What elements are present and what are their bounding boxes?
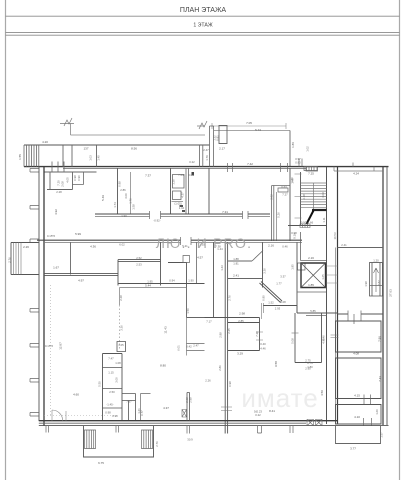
band vertical x72 (71, 145, 73, 167)
svg-text:7.27: 7.27 (282, 193, 288, 197)
svg-text:7.30: 7.30 (255, 331, 259, 337)
svg-text:5.44: 5.44 (145, 284, 151, 288)
window box top right wing (306, 167, 318, 171)
svg-text:1.88: 1.88 (233, 257, 239, 261)
door ticks corridor bottom (181, 237, 192, 245)
dark mark top shaft (192, 172, 195, 176)
svg-text:137: 137 (83, 147, 88, 151)
svg-text:1.86: 1.86 (291, 142, 295, 148)
svg-text:3.36: 3.36 (120, 325, 124, 331)
title rule 2 (6, 32, 400, 34)
svg-text:4.24: 4.24 (353, 172, 359, 176)
svg-text:0.80: 0.80 (295, 161, 301, 165)
svg-text:7.05: 7.05 (246, 121, 252, 125)
svg-text:2.98: 2.98 (189, 397, 193, 403)
right wing top room inner line (334, 167, 383, 171)
bottom wall line2 (39, 422, 306, 424)
wall x186 lower (186, 263, 188, 318)
right wing inner corridor wall thin (335, 248, 337, 425)
corridor cross ticks right (327, 266, 338, 283)
svg-text:7.37: 7.37 (145, 174, 151, 178)
svg-text:1.67: 1.67 (53, 266, 59, 270)
canopy line left (71, 134, 206, 136)
toilet cluster outer walls (103, 354, 123, 421)
heater shaft box right (370, 263, 383, 297)
left wall bottom stub (46, 426, 49, 433)
wall x70 room 1.67 (70, 242, 72, 274)
svg-text:2.16: 2.16 (268, 244, 274, 248)
svg-text:2.86: 2.86 (218, 365, 222, 371)
small box 278-288 (278, 188, 288, 192)
svg-text:7.04: 7.04 (178, 173, 184, 177)
tick x226 (221, 407, 232, 411)
svg-text:6.75: 6.75 (98, 461, 104, 465)
canopy line right (214, 130, 290, 132)
bay window hatch (14, 243, 22, 275)
corridor top wall (95, 213, 270, 215)
door ticks top wall x280-288 (281, 163, 288, 172)
stair arrow (307, 211, 314, 225)
svg-text:2.26: 2.26 (205, 379, 211, 383)
svg-text:1.81: 1.81 (233, 262, 239, 266)
svg-text:2.28: 2.28 (119, 295, 123, 301)
hatched boxes bottom right wall (307, 420, 314, 426)
dark mark low (182, 210, 185, 212)
svg-text:5.50: 5.50 (98, 381, 102, 387)
hatched box 2 (316, 420, 323, 426)
wall x188 lower double (187, 393, 190, 421)
svg-text:0.98: 0.98 (118, 181, 122, 187)
column stub x224 (225, 426, 227, 434)
svg-text:3.03: 3.03 (321, 192, 325, 198)
svg-text:9.58: 9.58 (274, 361, 278, 367)
wall y317 (187, 317, 260, 319)
wall x262 wc (262, 242, 264, 287)
porch steps box 1 (85, 430, 96, 449)
stair landing dark (312, 209, 327, 211)
elevator lobby bottom (297, 291, 327, 293)
svg-text:1.90: 1.90 (121, 214, 127, 218)
svg-text:1.02: 1.02 (306, 146, 310, 152)
wall main top second line (63, 167, 306, 169)
svg-text:1.57: 1.57 (380, 432, 384, 438)
svg-text:2.76: 2.76 (228, 295, 232, 301)
svg-text:4.50: 4.50 (320, 390, 324, 396)
svg-text:0.90: 0.90 (77, 175, 81, 181)
svg-text:3.37: 3.37 (280, 275, 286, 279)
bay window left (11, 243, 39, 275)
right wing inner wall (337, 167, 339, 424)
svg-text:ЛЮ.. И PRO.: ЛЮ.. И PRO. (156, 235, 252, 251)
wall x130 thin (130, 172, 132, 214)
wall main top (24, 166, 389, 168)
wall y260 double (118, 260, 161, 262)
svg-text:1.79: 1.79 (205, 155, 209, 161)
svg-text:0.94: 0.94 (169, 279, 175, 283)
svg-text:7.17: 7.17 (206, 320, 212, 324)
closet box C (173, 175, 185, 189)
wall x118 (117, 260, 119, 286)
svg-text:6.01: 6.01 (177, 345, 181, 351)
svg-text:8.56: 8.56 (131, 147, 137, 151)
room box x226-259 (228, 318, 260, 351)
column stub x117 (116, 426, 119, 433)
svg-text:0.98: 0.98 (228, 381, 232, 387)
diagonal wall middle (260, 282, 283, 303)
office bottom y362 (295, 362, 322, 364)
svg-text:2.52: 2.52 (136, 256, 142, 260)
column stub x259 (258, 426, 262, 433)
svg-text:2.86: 2.86 (120, 188, 126, 192)
svg-text:4.37: 4.37 (163, 406, 169, 410)
hall north wall (118, 283, 205, 285)
door ticks top wall x227-232 (228, 163, 233, 172)
svg-text:1.70: 1.70 (129, 198, 133, 204)
svg-text:2.76: 2.76 (8, 257, 12, 263)
svg-text:1.85: 1.85 (308, 283, 314, 287)
svg-text:3.77: 3.77 (350, 447, 356, 451)
svg-text:7.86: 7.86 (378, 336, 382, 342)
cell 140-150 (141, 394, 151, 421)
svg-text:ПЛАН ЭТАЖА: ПЛАН ЭТАЖА (180, 7, 227, 14)
svg-text:0.90x1.66: 0.90x1.66 (301, 221, 314, 225)
wall top band upper (24, 144, 210, 146)
ticks wall x337 (331, 335, 339, 338)
svg-text:5.99: 5.99 (75, 232, 81, 236)
svg-text:12.87: 12.87 (59, 342, 63, 350)
svg-text:0.22: 0.22 (255, 413, 261, 417)
bottom wall line3 (39, 425, 389, 427)
wall tie tab top of left wall (30, 169, 39, 173)
wall y315 elevator south (306, 315, 327, 317)
title rule 1 (6, 15, 400, 17)
svg-text:0.98: 0.98 (105, 411, 111, 415)
dark mark mid (180, 205, 184, 207)
svg-text:1.43: 1.43 (220, 265, 224, 271)
svg-text:1.11: 1.11 (322, 217, 326, 223)
wall x160 (160, 242, 162, 285)
porch right (336, 426, 381, 444)
svg-text:7.42: 7.42 (247, 162, 253, 166)
stair door hatch (300, 224, 310, 228)
svg-text:4.36: 4.36 (90, 245, 96, 249)
svg-text:2.08: 2.08 (61, 181, 65, 187)
svg-text:2.76: 2.76 (155, 441, 159, 447)
closet top right y185 (272, 185, 290, 187)
canopy dimension line 7.05 (212, 123, 286, 129)
shaft wall x186 (185, 168, 187, 214)
mezzanine left dashed (119, 305, 121, 350)
title rule 3 (6, 34, 400, 36)
door swing bottom left (52, 410, 63, 421)
svg-text:1.90: 1.90 (188, 279, 194, 283)
mezzanine top line 5.44 (120, 287, 187, 289)
wall y305 (263, 305, 297, 307)
svg-text:1.15: 1.15 (108, 371, 114, 375)
svg-text:27.63: 27.63 (389, 289, 393, 297)
svg-text:1.20: 1.20 (373, 259, 379, 263)
svg-text:4.15: 4.15 (354, 393, 360, 397)
svg-text:0.15*6: 0.15*6 (47, 234, 56, 238)
svg-text:2.50: 2.50 (109, 390, 115, 394)
wall tie tabs left (30, 206, 39, 417)
svg-text:7.31: 7.31 (222, 210, 228, 214)
svg-text:0.22: 0.22 (189, 160, 195, 164)
svg-text:7.25: 7.25 (308, 172, 314, 176)
small room x186-204 y343 (187, 344, 205, 351)
left inner dashed line (50, 285, 52, 415)
room C inset box (336, 405, 382, 425)
svg-text:11.43: 11.43 (164, 326, 168, 334)
svg-text:4.10: 4.10 (354, 415, 360, 419)
heater shaft arrow (374, 268, 379, 292)
small room box A upper-left (47, 172, 73, 190)
svg-text:1.60: 1.60 (375, 409, 379, 415)
svg-text:1.98: 1.98 (364, 281, 368, 287)
stairwell right wall long (326, 167, 328, 424)
svg-text:1.05: 1.05 (118, 343, 124, 347)
svg-text:0.98: 0.98 (291, 231, 297, 235)
svg-text:1.77: 1.77 (276, 282, 282, 286)
canopy break symbol left (60, 118, 74, 135)
wc south wall y278 (228, 278, 263, 280)
svg-text:0.90: 0.90 (112, 414, 118, 418)
door swing bottom left 2 (65, 411, 67, 421)
svg-text:2.25: 2.25 (227, 328, 231, 334)
svg-text:2.93: 2.93 (275, 307, 281, 311)
office right wall (321, 313, 323, 363)
corridor bottom wall (37, 239, 302, 241)
toilet top box (117, 342, 126, 352)
wall x209 (208, 168, 210, 214)
closet box D (173, 191, 182, 200)
svg-text:0.46: 0.46 (282, 245, 288, 249)
svg-text:2.53: 2.53 (136, 263, 142, 267)
svg-text:5.85: 5.85 (310, 309, 316, 313)
wc partition y261 (228, 260, 252, 262)
band vertical pair right end (200, 145, 203, 167)
svg-text:3.00: 3.00 (115, 377, 119, 383)
wall x213 middle (213, 242, 215, 317)
corridor bottom wall second line (44, 241, 302, 243)
svg-text:4.46: 4.46 (260, 347, 266, 351)
svg-text:1 ЭТАЖ: 1 ЭТАЖ (193, 23, 213, 29)
svg-text:7.43: 7.43 (378, 376, 382, 382)
svg-text:4.37: 4.37 (181, 192, 185, 198)
band vertical x63 (62, 145, 64, 167)
svg-text:0.91: 0.91 (216, 135, 220, 141)
heater shaft top line (370, 263, 384, 286)
left outer wall outer line (43, 167, 45, 426)
svg-text:5.49: 5.49 (101, 195, 105, 201)
svg-text:4.08: 4.08 (353, 352, 359, 356)
svg-text:2.28: 2.28 (56, 190, 62, 194)
corridor top wall second line (95, 216, 270, 218)
svg-text:2.47: 2.47 (203, 148, 209, 152)
svg-text:3.00: 3.00 (124, 193, 128, 199)
wall x170 upper rooms (170, 168, 172, 214)
svg-text:4.92: 4.92 (54, 209, 58, 215)
svg-text:1.10: 1.10 (290, 177, 294, 183)
porch left outline (84, 426, 154, 457)
band vertical x96 (96, 145, 98, 167)
svg-text:2.26: 2.26 (23, 245, 29, 249)
svg-text:1.74: 1.74 (113, 202, 117, 208)
ticks stairwell left (295, 174, 302, 218)
right wing corridor bottom y247 (338, 247, 384, 249)
wall y313 (297, 312, 338, 314)
svg-text:0.80: 0.80 (262, 295, 266, 301)
svg-text:1.08: 1.08 (115, 361, 121, 365)
small room box B upper-left (73, 172, 84, 185)
svg-text:5.08: 5.08 (291, 338, 295, 344)
small hatch near x182 wall (182, 410, 187, 418)
door ticks corridor top (150, 211, 249, 219)
stairwell bottom wall (288, 225, 327, 227)
corridor south wall y314 right (338, 313, 384, 315)
svg-text:5.26: 5.26 (277, 212, 281, 218)
wall x117 upper rooms (117, 168, 119, 214)
svg-text:7.47: 7.47 (108, 357, 114, 361)
svg-text:1.03: 1.03 (89, 155, 93, 161)
svg-text:3.92: 3.92 (270, 194, 274, 200)
svg-text:0.77: 0.77 (140, 410, 144, 416)
svg-text:5.08: 5.08 (280, 300, 286, 304)
stair treads (301, 183, 327, 207)
left outer wall inner line (38, 167, 40, 421)
office left wall x295 (294, 313, 296, 363)
frame left border (5, 0, 7, 480)
svg-text:6.04: 6.04 (188, 173, 194, 177)
svg-text:2.88: 2.88 (219, 332, 223, 338)
svg-text:2.41: 2.41 (233, 274, 239, 278)
svg-text:0.42: 0.42 (186, 345, 192, 349)
ticks at x262 y305 (262, 303, 264, 319)
door ticks y398 (364, 395, 371, 405)
wall y274 double (44, 274, 118, 276)
svg-text:1.85: 1.85 (291, 264, 295, 270)
svg-text:2.98: 2.98 (239, 312, 245, 316)
wall canopy right vertical (289, 131, 291, 167)
svg-text:2.41: 2.41 (341, 243, 347, 247)
wall y172 left (44, 171, 97, 173)
svg-text:1.10: 1.10 (179, 206, 185, 210)
column stub x291 (290, 426, 293, 433)
svg-text:1.52: 1.52 (268, 301, 274, 305)
svg-text:(1.05): (1.05) (174, 202, 181, 206)
PLAN-TEXT (8, 121, 393, 465)
toilet right cells (122, 394, 136, 421)
svg-text:1.65: 1.65 (321, 274, 325, 280)
svg-text:3.29: 3.29 (237, 352, 243, 356)
svg-text:4.60: 4.60 (73, 393, 79, 397)
door marks room east (256, 332, 263, 340)
dashed line above bottom wall (44, 415, 117, 417)
svg-text:2.16: 2.16 (308, 256, 314, 260)
column stub x188 (187, 426, 190, 434)
tick x374 top (353, 163, 374, 172)
svg-text:7.67: 7.67 (126, 400, 132, 404)
office door tick x295 (292, 332, 299, 334)
wall x276 (276, 192, 278, 241)
radiator box x297 (298, 263, 306, 270)
svg-text:4.57: 4.57 (197, 256, 203, 260)
porch steps box 2 (142, 430, 153, 449)
wall x272 double (272, 186, 274, 242)
svg-text:4.20: 4.20 (42, 140, 48, 144)
elevator cross (301, 263, 326, 288)
right outer wall outer line (386, 167, 388, 425)
shaft wall x188 (188, 168, 190, 214)
svg-text:1.58: 1.58 (132, 204, 136, 210)
svg-text:4.97: 4.97 (78, 279, 84, 283)
svg-text:1.40: 1.40 (97, 155, 101, 161)
frame right border (399, 0, 401, 480)
wall x196 (196, 242, 198, 283)
svg-text:1.95: 1.95 (147, 280, 153, 284)
svg-text:1.55: 1.55 (18, 154, 22, 160)
window hatch on top wall of stairwell (304, 167, 317, 171)
svg-text:0.40: 0.40 (260, 342, 266, 346)
jamb ticks below band (52, 162, 64, 173)
door ticks y314 (348, 311, 361, 325)
stair middle rail (313, 183, 315, 210)
room B inset box (336, 358, 382, 399)
stairwell left wall (300, 172, 302, 226)
svg-text:имате: имате (241, 383, 318, 413)
svg-text:2.47: 2.47 (193, 344, 199, 348)
svg-text:5.74: 5.74 (255, 128, 261, 132)
svg-text:4.46: 4.46 (322, 335, 326, 341)
PLAN-LINES (11, 118, 389, 457)
svg-text:-0.92-: -0.92- (153, 219, 160, 223)
svg-text:1.26: 1.26 (172, 179, 176, 185)
wall x290 (289, 168, 291, 241)
right outer wall inner line (382, 167, 384, 425)
svg-text:3.36: 3.36 (263, 268, 267, 274)
window jamb pair x299 (299, 159, 302, 167)
svg-text:-1.45-: -1.45- (106, 403, 113, 407)
svg-text:0.15*6: 0.15*6 (45, 344, 54, 348)
elevator shaft (301, 263, 326, 288)
wall y262 x168 (168, 262, 187, 264)
svg-text:1.50: 1.50 (186, 308, 190, 314)
step x297 (296, 306, 298, 314)
toilet cluster dividers (103, 368, 123, 409)
svg-text:2.85: 2.85 (238, 319, 244, 323)
room 2.16 left wall (300, 232, 302, 261)
shelf line y201 (172, 201, 184, 203)
mezzanine left stub (119, 288, 121, 306)
window hatch box top-left (24, 145, 39, 167)
column pair top-right of band (210, 126, 214, 167)
svg-text:30.9: 30.9 (187, 438, 193, 442)
svg-text:4.05: 4.05 (66, 177, 70, 183)
mezzanine right stub (186, 288, 188, 356)
room 2.16 bottom (301, 260, 327, 262)
bottom wall line1 (39, 420, 338, 422)
svg-text:2.82: 2.82 (377, 280, 381, 286)
box x183 y255 (183, 256, 190, 263)
room A inset box (336, 321, 382, 352)
canopy break symbol right (197, 121, 207, 129)
door swing diagonal wc (252, 251, 263, 262)
wall x297 elevator lobby (296, 242, 298, 313)
svg-text:1.80: 1.80 (307, 365, 313, 369)
svg-text:10.53: 10.53 (333, 232, 337, 239)
svg-text:2.17: 2.17 (219, 147, 225, 151)
svg-text:8.80: 8.80 (160, 364, 166, 368)
